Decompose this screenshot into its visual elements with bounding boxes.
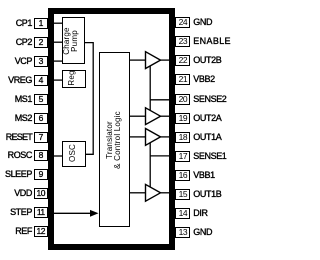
amplifier A3 (OUT1A) <box>146 129 161 146</box>
wire amplifier A4 to OUT1B pin <box>160 192 170 194</box>
wire translator to amplifier A4 <box>130 192 146 194</box>
wire amplifier A3 to OUT1A pin <box>160 136 170 138</box>
pin 2 CP2 <box>34 37 49 48</box>
pin 18 OUT1A <box>175 132 190 143</box>
wire to SENSE2 pin <box>150 99 170 101</box>
pin 4 VREG <box>34 75 49 86</box>
pin 16 VBB1 <box>175 170 190 181</box>
pin 20 SENSE2 <box>175 94 190 105</box>
pin 5 MS1 <box>34 94 49 105</box>
wire amplifier A1 to OUT2B pin <box>160 59 170 61</box>
pin 6 MS2 <box>34 113 49 124</box>
charge pump box <box>62 17 85 64</box>
regulator box Reg <box>62 70 86 89</box>
arrowhead STEP <box>90 210 99 217</box>
wire translator to amplifier A2 <box>130 115 146 117</box>
pin 12 REF <box>34 226 49 237</box>
wire translator to amplifier A3 <box>130 136 146 138</box>
pin 13 GND <box>175 227 190 238</box>
pin 7 RESET <box>34 132 49 143</box>
wire sense bus A3-A4 <box>149 143 151 188</box>
pin 24 GND <box>175 17 190 28</box>
pin 14 DIR <box>175 208 190 219</box>
IC body outline <box>48 8 175 250</box>
wire translator to amplifier A1 <box>130 59 146 61</box>
pin 9 SLEEP <box>34 169 49 180</box>
amplifier A1 (OUT2B) <box>146 52 161 69</box>
wire sense bus A1-A2 <box>149 66 151 110</box>
wire amplifier A2 to OUT2A pin <box>160 115 170 117</box>
pin 23 ENABLE <box>175 36 190 47</box>
pin 11 STEP <box>34 207 49 218</box>
pin 21 VBB2 <box>175 74 190 85</box>
amplifier A2 (OUT2A) <box>146 108 161 125</box>
wire CP1 to charge pump <box>53 22 63 24</box>
pin 22 OUT2B <box>175 55 190 66</box>
wire STEP into translator <box>53 212 91 214</box>
amplifier A4 (OUT1B) <box>146 184 161 201</box>
oscillator box OSC <box>62 141 86 168</box>
wire ROSC to OSC <box>53 155 63 157</box>
wire to SENSE1 pin <box>150 155 170 157</box>
wire charge pump to OSC vertical bus <box>85 43 94 155</box>
pin 17 SENSE1 <box>175 151 190 162</box>
pin 10 VDD <box>34 188 49 199</box>
translator and control logic box <box>99 52 130 227</box>
wire VREG to regulator <box>53 79 63 81</box>
pin 15 OUT1B <box>175 189 190 200</box>
pin 3 VCP <box>34 56 49 67</box>
wire CP2 to charge pump <box>53 41 63 43</box>
pin 1 CP1 <box>34 18 49 29</box>
wire VCP to charge pump <box>53 60 63 62</box>
pin 8 ROSC <box>34 150 49 161</box>
pin 19 OUT2A <box>175 113 190 124</box>
